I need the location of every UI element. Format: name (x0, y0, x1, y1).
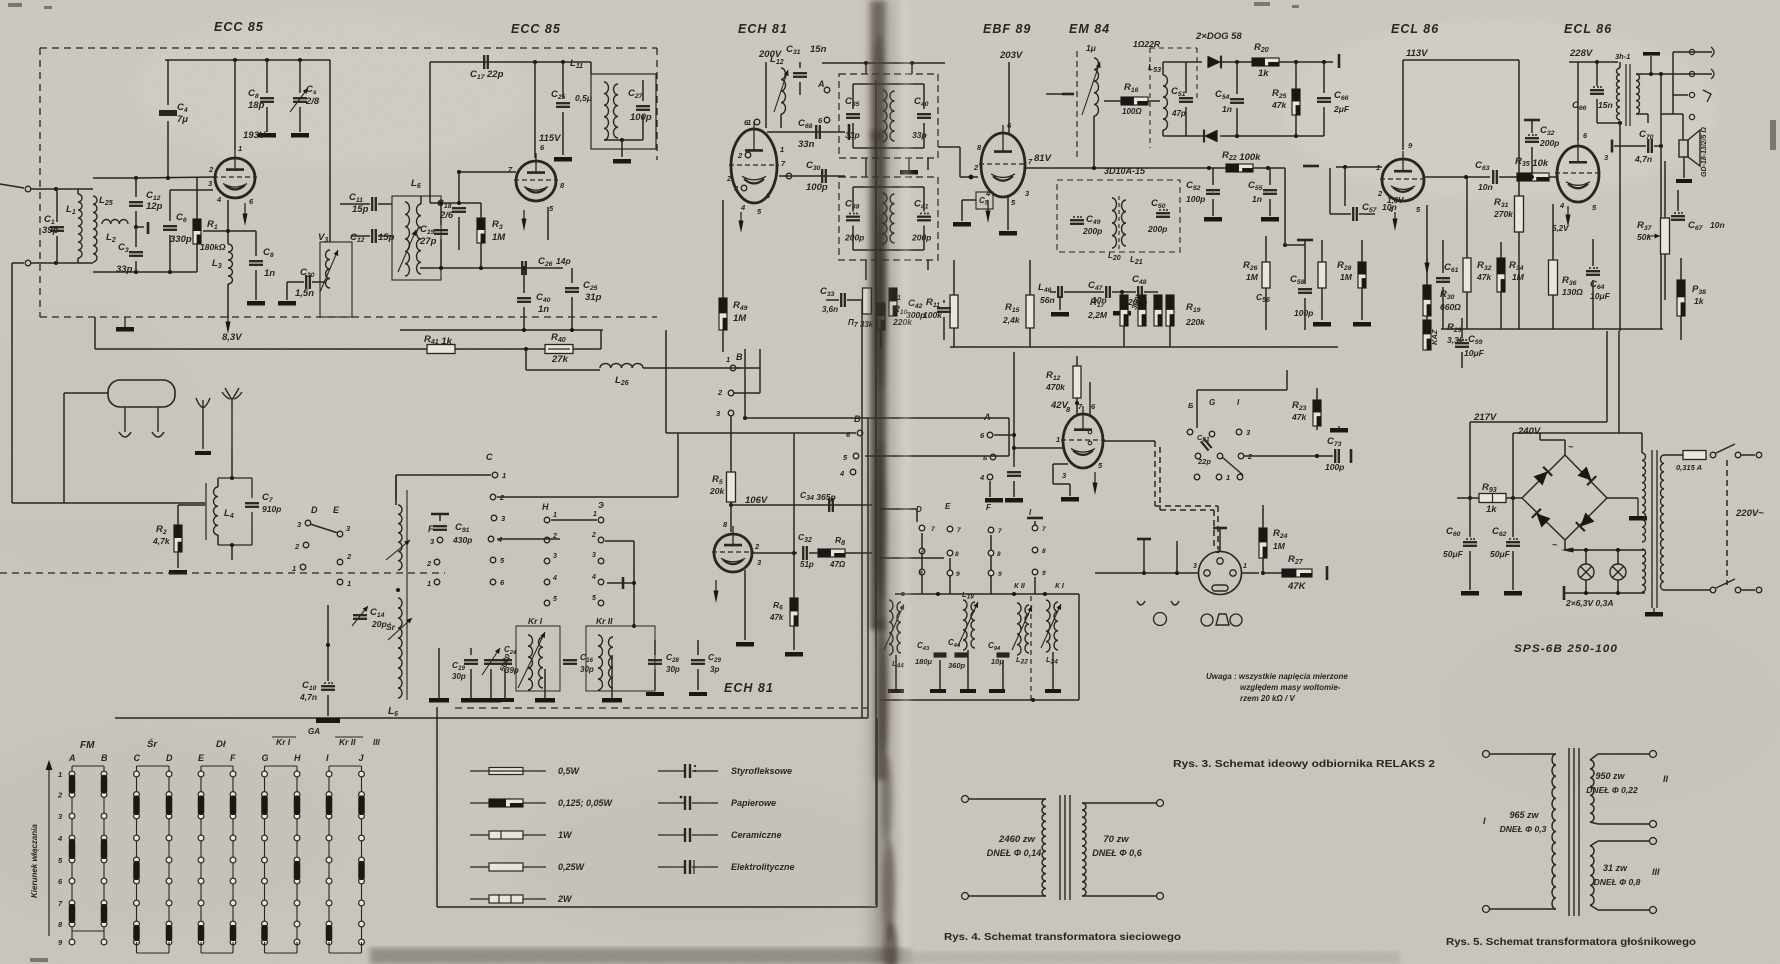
svg-text:1M: 1M (492, 232, 506, 243)
svg-text:4: 4 (979, 473, 985, 482)
svg-text:C34 365p: C34 365p (800, 490, 836, 502)
wire (1265, 288, 1267, 330)
junction (632, 624, 636, 628)
AM antenna symbol (202, 400, 204, 449)
socket slot (1212, 585, 1228, 591)
ground (888, 689, 904, 693)
wire jack mid (1673, 94, 1688, 96)
switch blade (1716, 444, 1735, 453)
wire (1082, 802, 1156, 804)
diode bridge 2 (1578, 467, 1592, 481)
svg-text:10n: 10n (1710, 220, 1725, 230)
coil L11b (614, 84, 618, 138)
switch column F (232, 766, 234, 942)
ground bar (429, 698, 449, 703)
svg-text:9: 9 (956, 571, 960, 578)
svg-text:B: B (101, 753, 108, 763)
contact F3 (437, 537, 443, 543)
contact H1 (544, 517, 550, 523)
wire (1093, 116, 1095, 168)
wire (1590, 754, 1598, 760)
svg-text:15n: 15n (810, 44, 827, 55)
trimmer arrow (482, 648, 500, 675)
svg-text:1μ: 1μ (1086, 43, 1097, 53)
junction (1649, 72, 1653, 76)
contact (1216, 474, 1222, 480)
wire (1069, 484, 1071, 496)
wire (1112, 291, 1136, 293)
capacitor (498, 659, 512, 661)
wire 240V vertical (1618, 331, 1620, 433)
svg-text:1M: 1M (1273, 541, 1286, 551)
wire (504, 669, 506, 698)
wire (327, 695, 329, 716)
ground (1504, 591, 1522, 596)
junction (134, 270, 138, 274)
bar (1062, 93, 1074, 96)
capacitor (433, 525, 447, 527)
svg-text:2: 2 (346, 552, 352, 561)
capacitor (1007, 471, 1021, 473)
box around L6 transformer (392, 196, 441, 280)
dashed core (1076, 51, 1078, 160)
wire (642, 80, 644, 101)
capacitor (565, 287, 579, 289)
contact D2 (303, 542, 309, 548)
junction (233, 58, 237, 62)
junction (457, 201, 461, 205)
wire (953, 260, 955, 295)
capacitor (1230, 98, 1244, 100)
wire (573, 348, 601, 350)
contact H2-4 (598, 579, 604, 585)
wire (1359, 213, 1375, 215)
wire grid2 (170, 189, 213, 191)
svg-text:7: 7 (998, 528, 1002, 535)
bar (1563, 586, 1566, 600)
svg-text:1W: 1W (558, 830, 573, 840)
legend resistor 0,5W (470, 770, 489, 772)
svg-text:30p: 30p (452, 672, 466, 681)
wire (1185, 62, 1187, 93)
wire (1121, 292, 1123, 310)
svg-text:Elektrolityczne: Elektrolityczne (731, 862, 795, 872)
svg-text:0,5μ: 0,5μ (575, 93, 593, 103)
svg-text:Kr II: Kr II (339, 737, 356, 747)
wire (1466, 177, 1468, 258)
svg-text:130Ω: 130Ω (1562, 287, 1583, 297)
svg-text:G: G (262, 753, 269, 763)
terminal (1650, 838, 1657, 845)
wire (1344, 167, 1346, 206)
wire 240V from output transformer (1619, 123, 1621, 331)
junction (226, 229, 230, 233)
svg-text:7μ: 7μ (177, 114, 188, 125)
contact C2 (490, 494, 496, 500)
switch blade (1222, 457, 1243, 475)
wire (1677, 190, 1679, 211)
wire top rail (822, 62, 945, 64)
wire (1552, 204, 1554, 260)
svg-text:12p: 12p (146, 201, 163, 212)
coil (398, 598, 402, 698)
trimmer plate (147, 222, 150, 234)
wire (266, 60, 268, 93)
cathode box C5 (976, 192, 993, 209)
wire 81V long line (1025, 167, 1285, 169)
wire (1664, 254, 1666, 300)
svg-text:DNEŁ Φ 0,8: DNEŁ Φ 0,8 (1594, 877, 1641, 887)
wire (780, 114, 782, 128)
wire row 268 (420, 267, 563, 269)
trimmer arrow (320, 250, 338, 292)
wire (231, 452, 233, 478)
coil L53 (1163, 75, 1168, 130)
svg-text:1k: 1k (1258, 68, 1269, 79)
wire (1265, 236, 1267, 262)
ground (689, 692, 707, 696)
dashed core det (1118, 196, 1120, 250)
junction (1511, 496, 1515, 500)
capacitor (electrolytic) (1590, 89, 1604, 91)
svg-text:3: 3 (553, 553, 557, 560)
contact (1032, 547, 1038, 553)
wire bottom rail (93, 271, 197, 273)
wire (1295, 115, 1297, 136)
svg-text:4: 4 (740, 203, 746, 212)
wire (736, 367, 760, 369)
wire (1442, 240, 1444, 273)
wire (809, 552, 818, 554)
wire (178, 504, 205, 506)
svg-text:4,7n: 4,7n (299, 692, 317, 702)
bar (848, 124, 851, 140)
wire (1361, 288, 1363, 320)
page fold / scan crease (860, 0, 910, 964)
coil (963, 600, 967, 650)
svg-text:Styrofleksowe: Styrofleksowe (731, 766, 792, 776)
svg-text:70 zw: 70 zw (1103, 834, 1129, 845)
svg-text:1M: 1M (1340, 272, 1353, 282)
ground (1204, 217, 1222, 222)
contact bridge F8-9 (230, 925, 237, 941)
resistor R36 (1549, 260, 1558, 295)
wire (1212, 199, 1214, 216)
junction (1283, 243, 1287, 247)
contact (919, 525, 925, 531)
ground (169, 570, 187, 575)
contact (919, 569, 925, 575)
resistor R40 (545, 345, 573, 354)
coil L2 (102, 219, 128, 224)
capacitor (452, 207, 466, 209)
coil (1552, 754, 1556, 909)
svg-text:7: 7 (957, 527, 961, 534)
wire (167, 121, 169, 178)
resistor R14 (1154, 295, 1162, 326)
ground (1261, 217, 1279, 222)
svg-text:1: 1 (292, 564, 296, 573)
wire (1539, 433, 1541, 440)
wire (196, 178, 198, 219)
wire (611, 655, 613, 698)
terminal (1650, 751, 1657, 758)
contact bridge C5-6 (133, 861, 140, 880)
coil (1590, 760, 1594, 822)
wire (1221, 61, 1252, 63)
svg-text:2: 2 (57, 791, 63, 800)
coil (1025, 605, 1029, 653)
bottom links (136, 942, 138, 953)
dashed FM/AM separator (0, 572, 445, 574)
coil (1054, 602, 1058, 650)
wire (1123, 326, 1125, 347)
junction (1012, 592, 1016, 596)
terminal (1710, 452, 1716, 458)
junction (1092, 166, 1096, 170)
junction (1659, 144, 1663, 148)
wire (1741, 454, 1755, 456)
contact (1032, 525, 1038, 531)
wire det bottom (1163, 135, 1204, 137)
wire primary top (1664, 454, 1683, 456)
wire top link (1197, 389, 1287, 391)
wire (1316, 426, 1318, 430)
wire (865, 455, 1009, 457)
terminal (962, 796, 969, 803)
svg-text:50μF: 50μF (1490, 549, 1511, 559)
svg-text:0,125; 0,05W: 0,125; 0,05W (558, 798, 614, 808)
wire can top (853, 186, 924, 188)
R40 midline (548, 348, 570, 350)
wire can bottom (853, 249, 924, 251)
contact (988, 570, 994, 576)
wire (1469, 551, 1471, 590)
legend resistor 2W (470, 898, 489, 900)
svg-text:31p: 31p (585, 292, 602, 303)
capacitor (249, 260, 263, 262)
wire (1512, 498, 1514, 537)
svg-text:A: A (983, 412, 991, 422)
coil (1590, 846, 1594, 905)
bottom link A-B (72, 930, 104, 932)
wire (1680, 316, 1682, 340)
wire anode ECL86b (1577, 62, 1579, 140)
ground bar (481, 698, 501, 703)
connector circle (1230, 614, 1242, 626)
trimmer arrow (1082, 62, 1100, 115)
wire (1636, 113, 1648, 115)
junction (457, 170, 461, 174)
wire (1162, 130, 1164, 136)
capacitor (1298, 288, 1312, 290)
svg-text:4: 4 (552, 575, 557, 582)
wire (989, 481, 991, 497)
svg-text:47Ω: 47Ω (829, 560, 846, 569)
svg-text:220k: 220k (1185, 317, 1206, 327)
terminal (1756, 587, 1762, 593)
wire (1064, 291, 1104, 293)
junction (729, 503, 733, 507)
svg-text:1,5n: 1,5n (295, 288, 314, 299)
svg-text:8: 8 (955, 551, 959, 558)
svg-text:G: G (1209, 398, 1215, 407)
terminal 3 (741, 185, 747, 191)
contact H2 (544, 537, 550, 543)
wire (1002, 660, 1004, 689)
terminal B2 (728, 390, 734, 396)
junction (298, 58, 302, 62)
svg-text:4: 4 (839, 469, 845, 478)
wire (994, 434, 1014, 436)
contact H5 (544, 600, 550, 606)
wire (1592, 280, 1594, 329)
svg-text:1,6V: 1,6V (1387, 196, 1404, 205)
wire (1614, 145, 1646, 147)
junction (326, 643, 330, 647)
junction (54, 187, 58, 191)
resistor R19sym (1166, 295, 1174, 326)
ground (1313, 322, 1331, 327)
contact H2-1 (598, 517, 604, 523)
wire (352, 235, 370, 237)
wire (1664, 161, 1666, 218)
svg-text:1: 1 (427, 579, 431, 588)
wire (911, 63, 913, 74)
wire (1059, 296, 1061, 310)
terminal antenna input 2 (25, 260, 31, 266)
wire (1078, 594, 1080, 700)
IF transformer can (839, 177, 938, 260)
wire (470, 648, 472, 655)
capacitor (electrolytic) (1525, 137, 1539, 139)
svg-text:1: 1 (1243, 563, 1247, 570)
legend capacitor Styrofleksowe (658, 770, 684, 772)
bar (1611, 140, 1614, 153)
wire (876, 718, 878, 907)
wire (231, 545, 233, 560)
transformer core (1651, 450, 1653, 608)
wire jack top (1673, 51, 1712, 53)
svg-text:2: 2 (717, 388, 723, 397)
coil (528, 635, 533, 690)
ground (278, 301, 296, 306)
junction (265, 58, 269, 62)
svg-text:0,5W: 0,5W (558, 766, 581, 776)
resistor R? (889, 288, 897, 316)
lamp hook 1 (124, 407, 126, 432)
contact D1 (300, 564, 306, 570)
svg-text:Kr I: Kr I (528, 616, 543, 626)
svg-text:240V: 240V (1517, 426, 1541, 437)
capacitor C35 (846, 113, 860, 115)
wire bottom solid (115, 717, 868, 719)
wire (1007, 197, 1009, 230)
ground (1051, 312, 1069, 317)
wire g3 row (779, 175, 845, 177)
resistor R1 (193, 219, 201, 244)
wire (1316, 388, 1318, 400)
wire (1104, 100, 1121, 102)
wire (217, 535, 219, 545)
wire (1598, 823, 1649, 825)
wire (927, 260, 929, 270)
svg-text:2μF: 2μF (1333, 104, 1350, 114)
svg-text:1n: 1n (1252, 194, 1262, 204)
capacitor C41 (917, 216, 931, 218)
svg-text:33n: 33n (798, 139, 815, 150)
contact (1217, 453, 1223, 459)
wire (287, 281, 304, 283)
junction (439, 266, 443, 270)
terminal A (824, 87, 830, 93)
wire (665, 330, 667, 433)
wire (395, 475, 397, 505)
junction (901, 592, 905, 596)
arrow heater (1567, 206, 1569, 220)
lamp symbol (1154, 613, 1167, 626)
wire (1050, 291, 1056, 293)
legend capacitor Elektrolityczne (658, 866, 684, 868)
terminal (1689, 92, 1694, 97)
capacitor (434, 229, 448, 231)
resistor R6 (790, 598, 798, 626)
ground GA (316, 718, 340, 723)
svg-text:0,315 A: 0,315 A (1676, 463, 1702, 472)
trimmer arrow (774, 70, 788, 112)
svg-text:228V: 228V (1569, 48, 1593, 59)
wire can bottom (853, 147, 924, 149)
junction (1012, 446, 1016, 450)
wire (1683, 157, 1685, 178)
svg-text:Б: Б (1188, 401, 1194, 410)
wire lamp bottom (1564, 592, 1645, 594)
dashed (1030, 596, 1032, 700)
wire (847, 299, 862, 301)
wire (1034, 577, 1036, 594)
svg-text:2: 2 (726, 174, 732, 183)
wire dashed v1 (1217, 506, 1219, 548)
coil (1042, 799, 1046, 896)
terminal (990, 454, 996, 460)
svg-text:910p: 910p (262, 504, 281, 514)
junction (620, 138, 624, 142)
svg-text:50k: 50k (1637, 232, 1652, 242)
svg-text:2: 2 (737, 151, 743, 160)
wire (562, 62, 564, 98)
wire (1103, 440, 1155, 442)
svg-text:DNEŁ Φ 0,6: DNEŁ Φ 0,6 (1092, 848, 1142, 858)
svg-text:2460 zw: 2460 zw (998, 834, 1036, 845)
junction (1315, 454, 1319, 458)
svg-text:1Ω22R: 1Ω22R (1133, 39, 1161, 49)
ground (1338, 426, 1340, 428)
junction (134, 176, 138, 180)
wire (497, 538, 560, 540)
wire 106V (731, 504, 872, 506)
capacitor (840, 293, 842, 307)
wire (1564, 540, 1566, 550)
contact bridge D2-3 (166, 796, 173, 816)
capacitor (129, 201, 143, 203)
wire (590, 62, 592, 74)
wire (880, 330, 882, 349)
socket pin 3 (1204, 570, 1210, 576)
wire (1647, 114, 1649, 123)
wire coupling row (1424, 176, 1490, 178)
contact (1195, 453, 1201, 459)
wire input bottom (12, 262, 24, 264)
